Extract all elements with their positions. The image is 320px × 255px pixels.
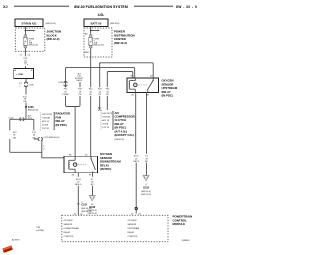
svg-text:A21 14: A21 14	[42, 120, 49, 123]
svg-text:A0: A0	[85, 33, 88, 36]
svg-text:DOWNSTREAM: DOWNSTREAM	[64, 227, 80, 230]
svg-text:(8W-15-3): (8W-15-3)	[88, 213, 98, 215]
svg-text:PK: PK	[89, 94, 92, 96]
wire B	[79, 82, 81, 87]
svg-text:BATT A0: BATT A0	[91, 21, 102, 25]
svg-text:17: 17	[20, 55, 23, 57]
connector C108 symbol	[24, 82, 27, 87]
svg-text:F12: F12	[13, 132, 17, 134]
PDC bus arrow	[91, 30, 98, 32]
bus arrow right	[25, 30, 33, 32]
svg-text:CALIF.: CALIF.	[76, 79, 83, 82]
svg-text:RELAY: RELAY	[128, 231, 135, 234]
radiator fan note brace	[53, 113, 56, 130]
svg-text:8W-30 FUEL/IGNITION SYSTEM: 8W-30 FUEL/IGNITION SYSTEM	[74, 5, 128, 9]
svg-text:F42: F42	[98, 89, 102, 91]
svg-text:K125: K125	[134, 156, 140, 158]
svg-text:C108: C108	[29, 85, 35, 87]
fuse F11 body	[23, 37, 27, 45]
svg-text:18: 18	[77, 182, 80, 184]
svg-text:J988W-9: J988W-9	[182, 240, 191, 242]
connector C281 box	[14, 68, 34, 78]
svg-text:F42: F42	[78, 89, 82, 91]
wire D to A/C note	[99, 96, 101, 110]
svg-text:F12: F12	[32, 132, 36, 134]
inline connector on zigzag	[38, 138, 42, 141]
zigzag wire to bus	[34, 138, 39, 140]
svg-text:18: 18	[90, 91, 93, 93]
svg-text:PK: PK	[98, 94, 101, 96]
header rule left	[14, 5, 69, 7]
power distribution center dashed box	[84, 28, 112, 57]
svg-text:H: H	[31, 70, 33, 72]
svg-text:DB: DB	[13, 137, 17, 139]
svg-text:(IN PDC): (IN PDC)	[56, 123, 67, 127]
radiator fan note bracket	[40, 113, 42, 131]
svg-text:(8W-15-3): (8W-15-3)	[141, 191, 151, 193]
svg-text:F12 18: F12 18	[42, 128, 49, 130]
svg-text:(8W-10-2): (8W-10-2)	[114, 41, 127, 45]
downstream relay control wire	[77, 173, 79, 177]
svg-text:F12 18: F12 18	[102, 127, 109, 129]
connector C105 tick	[77, 203, 79, 205]
fuse F11 bottom terminal	[24, 46, 27, 48]
svg-text:SENSOR: SENSOR	[128, 224, 137, 226]
svg-text:ST-RUN: ST-RUN	[102, 117, 110, 119]
svg-text:A142: A142	[85, 51, 91, 54]
svg-text:BK: BK	[91, 184, 94, 186]
svg-text:18: 18	[13, 135, 16, 137]
svg-text:18: 18	[106, 91, 109, 93]
svg-text:18: 18	[135, 158, 138, 160]
svg-text:G108: G108	[89, 206, 96, 209]
svg-text:(8W-15-4): (8W-15-4)	[141, 194, 151, 196]
upstream relay coil circle	[134, 83, 138, 87]
ground G103 symbol	[143, 175, 149, 181]
downstream relay coil winding	[69, 160, 70, 169]
downstream relay switch	[91, 156, 95, 170]
svg-text:8W - 30 - 9: 8W - 30 - 9	[176, 5, 197, 9]
svg-text:2: 2	[43, 149, 45, 151]
downstream relay ground wire	[92, 173, 94, 177]
header rule right	[134, 5, 173, 7]
svg-text:K124: K124	[76, 179, 82, 181]
svg-text:(IN PDC): (IN PDC)	[162, 94, 173, 98]
svg-text:ST-RUN A21: ST-RUN A21	[21, 21, 37, 25]
PDC junction dot	[90, 30, 92, 32]
svg-text:CONTROL: CONTROL	[64, 236, 75, 238]
svg-text:+ C281: + C281	[16, 74, 24, 76]
svg-text:PK/BK: PK/BK	[62, 94, 69, 96]
svg-text:18: 18	[99, 91, 102, 93]
svg-text:RELAY: RELAY	[64, 231, 71, 234]
fuse F11 top terminal	[24, 35, 27, 37]
svg-text:F42: F42	[89, 89, 93, 91]
downstream relay coil circle	[73, 163, 77, 167]
svg-text:(EXCEPT CAL): (EXCEPT CAL)	[115, 133, 135, 137]
wire A inline connector	[64, 82, 67, 87]
svg-text:PK: PK	[79, 94, 82, 96]
svg-text:87: 87	[147, 95, 150, 97]
ac compressor note brace	[111, 112, 114, 130]
svg-text:6: 6	[27, 64, 29, 66]
svg-text:18: 18	[145, 158, 148, 160]
node BATT A0 box	[84, 19, 108, 27]
svg-text:BK/LG: BK/LG	[75, 184, 82, 186]
svg-text:F42: F42	[106, 89, 110, 91]
svg-text:ST-RUN: ST-RUN	[42, 117, 50, 119]
svg-text:C105: C105	[81, 204, 87, 207]
svg-text:C4: C4	[28, 55, 32, 57]
ground G108 symbol	[89, 195, 95, 201]
svg-text:18 DB: 18 DB	[42, 124, 48, 126]
downstream relay linkage dashes	[78, 164, 87, 166]
connector C126 symbol	[20, 118, 24, 121]
svg-text:=: =	[19, 85, 21, 87]
svg-text:PK: PK	[106, 94, 109, 96]
svg-text:30: 30	[150, 76, 153, 78]
svg-text:Z2: Z2	[91, 179, 94, 181]
upstream relay switch	[147, 78, 153, 91]
right branch wire down	[33, 119, 35, 130]
svg-text:BK: BK	[145, 161, 148, 163]
svg-text:4.0L: 4.0L	[98, 13, 105, 17]
svg-text:(8W-10-6): (8W-10-6)	[110, 23, 120, 25]
tee junction wire	[10, 118, 34, 120]
svg-text:87: 87	[89, 175, 92, 177]
wire E to A/C note	[106, 96, 108, 110]
svg-text:(8W-15-2): (8W-15-2)	[88, 210, 98, 212]
wire A	[65, 81, 67, 87]
svg-text:18: 18	[64, 91, 67, 93]
svg-text:A21 14: A21 14	[102, 119, 109, 122]
svg-text:UPSTREAM: UPSTREAM	[128, 227, 140, 230]
upstream relay coil ground wire	[135, 92, 137, 154]
downstream O2 relay box	[64, 156, 98, 173]
wire label F12 18 DB	[24, 53, 26, 56]
svg-text:(8W-30-10): (8W-30-10)	[28, 110, 39, 112]
wire from BATT box into PDC	[90, 27, 92, 36]
bus to downstream relay	[10, 152, 64, 158]
junction dot	[25, 30, 27, 32]
svg-text:(IN PDC): (IN PDC)	[100, 167, 111, 171]
svg-text:MODULE: MODULE	[173, 222, 186, 226]
svg-text:C126: C126	[9, 118, 15, 120]
horizontal feed H1 to upstream relay pin 30	[100, 63, 154, 78]
svg-text:*LIB: *LIB	[36, 227, 41, 229]
merged wire to downstream relay	[74, 107, 76, 157]
svg-text:18: 18	[91, 182, 94, 184]
wire fuse to JB edge	[24, 48, 26, 53]
logo red stamp	[2, 245, 13, 253]
merge of wires A and B	[66, 96, 81, 107]
downstream relay coil loop	[70, 156, 75, 173]
svg-text:(=LTRB): (=LTRB)	[36, 230, 44, 232]
svg-text:(8W-12-2): (8W-12-2)	[47, 37, 60, 41]
svg-text:85: 85	[132, 95, 135, 97]
upstream relay coil loop	[130, 78, 135, 92]
svg-text:18: 18	[33, 135, 36, 137]
svg-text:1: 1	[43, 146, 45, 148]
wire D riser from H1 corner	[99, 63, 101, 88]
svg-text:F42: F42	[64, 89, 68, 91]
svg-text:Z1: Z1	[145, 156, 148, 158]
ac compressor note bracket	[100, 112, 102, 131]
node ST-RUN A21 box	[15, 19, 43, 27]
fuse F9 bottom terminal	[89, 46, 92, 48]
svg-text:CONTROL: CONTROL	[128, 236, 139, 238]
svg-text:(8W-12-11): (8W-12-11)	[94, 45, 105, 47]
svg-text:18 DB: 18 DB	[102, 124, 108, 126]
upstream relay coil winding	[128, 81, 131, 90]
svg-text:SENSOR: SENSOR	[64, 224, 73, 226]
powertrain control module dashed box	[62, 215, 168, 242]
svg-text:G103: G103	[143, 186, 150, 189]
svg-text:85: 85	[72, 175, 75, 177]
svg-text:4.0L: 4.0L	[98, 110, 103, 112]
wire E riser and horizontal to upstream relay coil pin	[107, 72, 133, 88]
svg-text:ALTEST: ALTEST	[12, 239, 20, 242]
svg-text:OXYGEN: OXYGEN	[64, 220, 73, 222]
wire fuse to PDC edge	[90, 48, 92, 57]
horizontal feed H2 to upstream relay pin 86	[65, 68, 67, 81]
upstream relay linkage dashes	[139, 84, 148, 86]
wire from ST-RUN box into junction block	[24, 27, 26, 36]
svg-text:XJ: XJ	[3, 5, 8, 9]
svg-text:C178 (8W-30-10): C178 (8W-30-10)	[43, 137, 59, 139]
svg-text:A: A	[15, 69, 17, 72]
svg-text:(8W-10-11): (8W-10-11)	[46, 23, 57, 25]
left branch wire down	[9, 119, 11, 130]
svg-text:S136: S136	[28, 106, 34, 109]
PCM entry ring right	[135, 207, 137, 209]
upstream O2 relay box	[127, 78, 159, 93]
main feed wire from PDC	[90, 57, 92, 87]
svg-text:DB/YL: DB/YL	[133, 161, 140, 163]
svg-text:18: 18	[79, 91, 82, 93]
upstream relay output wire	[146, 92, 148, 154]
fuse F9 body	[89, 37, 93, 45]
wire C281 to C108	[25, 78, 27, 83]
svg-text:(8W-42-5): (8W-42-5)	[115, 139, 125, 141]
fuse F9 top terminal	[89, 35, 92, 37]
svg-text:F42 18 PK: F42 18 PK	[102, 113, 112, 115]
svg-text:(8W-12-9): (8W-12-9)	[29, 45, 39, 47]
svg-text:OXYGEN: OXYGEN	[128, 220, 137, 222]
svg-text:C232: C232	[58, 82, 64, 84]
svg-text:F42 18 PK: F42 18 PK	[42, 114, 52, 116]
junction block dashed box	[15, 28, 45, 51]
wire to splice	[25, 103, 27, 120]
splice S136	[25, 106, 27, 108]
